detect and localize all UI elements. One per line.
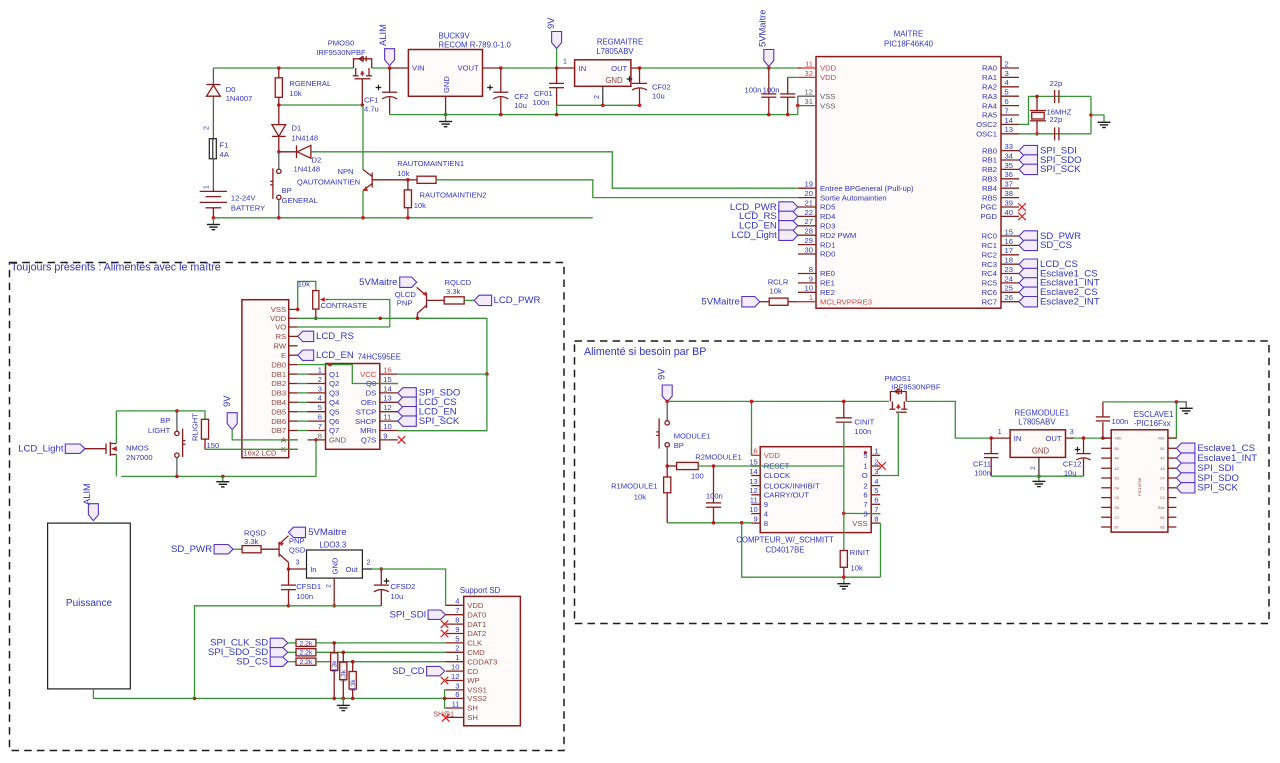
wire module gnd rail xyxy=(991,475,1083,477)
ESCLAVE1 pin l4 xyxy=(1101,467,1111,469)
capacitor CF12 10u xyxy=(1076,438,1090,476)
SupportSD pin CLK xyxy=(446,642,464,644)
svg-text:LCD_EN: LCD_EN xyxy=(316,350,354,361)
ground at BUCK xyxy=(445,115,447,122)
svg-text:A2: A2 xyxy=(1115,467,1119,471)
svg-text:Out: Out xyxy=(346,565,359,574)
74HC595 pin Q4 xyxy=(308,401,326,403)
CD4017 pin CLOCK/INHIBIT xyxy=(751,485,760,487)
svg-text:RA5: RA5 xyxy=(982,111,997,120)
resistor RAUTOMAINTIEN2 10k xyxy=(404,190,411,208)
svg-text:L7805ABV: L7805ABV xyxy=(596,47,634,56)
ESCLAVE1 pin r7 xyxy=(1168,497,1177,499)
power ALIM top xyxy=(385,49,395,66)
svg-text:6: 6 xyxy=(874,496,878,505)
svg-text:RAUTOMAINTIEN1: RAUTOMAINTIEN1 xyxy=(397,159,464,168)
label SD_CS xyxy=(270,657,288,666)
wire RESET over chip xyxy=(751,465,844,467)
74HC595 pin Q5 xyxy=(308,411,326,413)
svg-text:RB2: RB2 xyxy=(982,165,997,174)
svg-text:R2MODULE1: R2MODULE1 xyxy=(695,453,741,462)
74HC595 pin VCC xyxy=(380,373,398,375)
capacitor CFSD1 100n xyxy=(281,569,296,606)
PIC pin 19 Entree xyxy=(798,187,816,189)
power 9V module xyxy=(662,385,672,402)
svg-text:7: 7 xyxy=(863,500,867,509)
svg-text:CF12: CF12 xyxy=(1063,460,1082,469)
svg-text:RA0: RA0 xyxy=(982,64,997,73)
svg-text:NPN: NPN xyxy=(337,167,353,176)
PIC pin RC3 xyxy=(1001,263,1019,265)
svg-text:RQLCD: RQLCD xyxy=(445,278,472,287)
resistor pullup 3.3k #2 xyxy=(342,651,346,655)
svg-text:B7: B7 xyxy=(1115,526,1119,530)
svg-text:100n: 100n xyxy=(706,491,723,500)
svg-text:23: 23 xyxy=(1005,265,1013,274)
svg-text:RA4: RA4 xyxy=(982,101,998,110)
svg-text:9: 9 xyxy=(753,515,757,524)
svg-text:6: 6 xyxy=(455,690,459,699)
svg-text:VOUT: VOUT xyxy=(458,64,479,73)
svg-text:2: 2 xyxy=(1005,59,1009,68)
svg-text:BP: BP xyxy=(282,186,292,195)
svg-text:2: 2 xyxy=(1030,466,1037,470)
svg-text:12: 12 xyxy=(451,672,459,681)
svg-text:11: 11 xyxy=(805,59,813,68)
transistor PMOS1 IRF9530NPBF xyxy=(889,389,907,412)
svg-text:Toujours présents : Alimentés: Toujours présents : Alimentés avec le ma… xyxy=(11,262,221,274)
svg-text:STCP: STCP xyxy=(356,407,377,416)
PIC pin RE0 xyxy=(798,273,816,275)
wire VDD riser xyxy=(751,401,753,455)
svg-text:10k: 10k xyxy=(397,169,409,178)
svg-text:VSS: VSS xyxy=(1158,437,1166,441)
wire OSC1 rail xyxy=(1019,133,1091,135)
svg-text:In: In xyxy=(310,565,316,574)
PIC pin RB1 xyxy=(1001,159,1019,161)
svg-text:GND: GND xyxy=(330,557,339,574)
svg-text:1: 1 xyxy=(809,293,813,302)
svg-text:9V: 9V xyxy=(545,17,556,29)
svg-text:RD3: RD3 xyxy=(820,222,835,231)
svg-text:30: 30 xyxy=(805,245,813,254)
power ALIM puissance xyxy=(88,504,98,521)
svg-text:9: 9 xyxy=(809,274,813,283)
capacitor C100n A at PIC xyxy=(761,68,776,115)
wire RGENERAL to PMOS gate xyxy=(279,104,363,106)
PIC pin PGD xyxy=(1001,215,1019,217)
svg-text:1: 1 xyxy=(318,366,322,375)
svg-text:RD0: RD0 xyxy=(820,250,835,259)
svg-text:5VMaitre: 5VMaitre xyxy=(359,277,397,288)
svg-text:CD: CD xyxy=(467,667,479,676)
svg-text:SD_CS: SD_CS xyxy=(236,657,268,668)
ESCLAVE1 pin l9 xyxy=(1101,516,1111,518)
svg-text:2: 2 xyxy=(863,481,867,490)
svg-text:40: 40 xyxy=(1005,208,1013,217)
capacitor CF1 4.7u xyxy=(382,68,397,115)
svg-text:C4: C4 xyxy=(1160,477,1164,481)
PIC pin RB5 xyxy=(1001,197,1019,199)
svg-text:4A: 4A xyxy=(220,150,230,159)
svg-text:4: 4 xyxy=(1005,78,1009,87)
svg-text:DB5: DB5 xyxy=(271,407,286,416)
svg-text:3: 3 xyxy=(318,384,322,393)
LCD pin K xyxy=(289,448,298,450)
resistor 2.2k #3 xyxy=(288,661,296,663)
svg-text:OSC2: OSC2 xyxy=(976,120,997,129)
wire LDO out xyxy=(362,568,372,570)
svg-text:4: 4 xyxy=(318,394,322,403)
svg-text:26: 26 xyxy=(1005,293,1013,302)
PIC pin VSS 31 xyxy=(798,105,816,107)
svg-text:2: 2 xyxy=(325,584,332,588)
svg-text:DAT0: DAT0 xyxy=(467,610,486,619)
svg-text:2N7000: 2N7000 xyxy=(126,453,153,462)
wire module bottom-left rail xyxy=(667,522,751,524)
svg-text:3: 3 xyxy=(1005,69,1009,78)
svg-text:C1: C1 xyxy=(1160,486,1164,490)
CD4017 pin RESET xyxy=(751,465,760,467)
svg-text:10u: 10u xyxy=(514,101,527,110)
svg-text:OUT: OUT xyxy=(611,64,627,73)
svg-text:RB4: RB4 xyxy=(982,184,998,193)
switch BP GENERAL xyxy=(270,152,281,218)
svg-text:BP: BP xyxy=(160,416,170,425)
svg-text:CF2: CF2 xyxy=(514,92,528,101)
label LCD_Light at RD2 xyxy=(779,230,798,240)
svg-text:DB3: DB3 xyxy=(271,389,286,398)
svg-text:Q2: Q2 xyxy=(329,379,339,388)
wire 74HC GND down xyxy=(314,438,318,442)
wire R2 to RESET xyxy=(698,465,844,467)
wire VSS bottom rail xyxy=(390,114,798,116)
svg-text:5: 5 xyxy=(874,486,878,495)
wire RAUTOMAINTIEN1 to Sortie pin20 xyxy=(436,180,798,198)
svg-text:RA2: RA2 xyxy=(982,83,997,92)
svg-text:Esclave2_INT: Esclave2_INT xyxy=(1040,297,1100,308)
svg-text:28: 28 xyxy=(805,227,813,236)
LCD pin DB2 xyxy=(289,383,298,385)
CD4017 pin r3 xyxy=(871,475,880,477)
ESCLAVE1 pin l6 xyxy=(1101,487,1111,489)
svg-text:1: 1 xyxy=(998,429,1002,436)
svg-text:38: 38 xyxy=(1005,189,1013,198)
svg-text:31: 31 xyxy=(805,97,813,106)
svg-text:REGMAITRE: REGMAITRE xyxy=(597,38,643,47)
label 5VMaitre at QSD xyxy=(289,527,306,537)
wire VSS pins to rail xyxy=(797,96,799,105)
label 5VMaitre at QLCD xyxy=(400,277,417,287)
resistor RCLR 10k xyxy=(769,298,788,305)
svg-text:5: 5 xyxy=(1005,88,1009,97)
svg-text:SPI_SDI: SPI_SDI xyxy=(390,610,427,621)
PIC pin RD4 xyxy=(798,215,816,217)
PIC pin RB3 xyxy=(1001,178,1019,180)
LCD pin DB7 xyxy=(289,430,298,432)
wire VO row xyxy=(298,326,390,328)
svg-text:7: 7 xyxy=(455,606,459,615)
svg-text:RQSD: RQSD xyxy=(244,528,266,537)
svg-text:CLK: CLK xyxy=(467,639,483,648)
svg-text:5: 5 xyxy=(455,634,459,643)
ground at SD pullups xyxy=(342,698,344,705)
fuse F1 4A xyxy=(209,139,216,189)
svg-text:-PIC16Fxx: -PIC16Fxx xyxy=(1134,419,1171,428)
svg-text:1: 1 xyxy=(874,447,878,456)
PIC pin OSC2 xyxy=(1001,123,1019,125)
svg-text:O: O xyxy=(862,471,868,480)
wire VOUT rail to REGMAITRE xyxy=(483,67,501,69)
regulator LDO3.3 xyxy=(287,567,291,571)
ESCLAVE1 pin r4 xyxy=(1168,467,1177,469)
switch MODULE1 BP xyxy=(656,401,669,466)
label LCD_Light in xyxy=(65,444,85,453)
svg-text:ALIM: ALIM xyxy=(81,483,92,505)
capacitor 100n module xyxy=(706,466,721,523)
svg-text:SH: SH xyxy=(467,713,478,722)
svg-text:D4: D4 xyxy=(1115,486,1119,490)
svg-text:VDD: VDD xyxy=(820,73,837,82)
wire DB0 to Q0 xyxy=(298,365,398,384)
svg-text:10: 10 xyxy=(749,505,757,514)
LCD pin VSS xyxy=(289,308,298,310)
wire VCC to vertical xyxy=(398,373,487,375)
svg-text:MAITRE: MAITRE xyxy=(894,30,923,39)
svg-text:12-24V: 12-24V xyxy=(231,194,256,203)
PIC pin RC1 xyxy=(1001,244,1019,246)
svg-text:VDD: VDD xyxy=(764,451,781,460)
svg-text:15: 15 xyxy=(383,375,391,384)
ESCLAVE1 pin r2 xyxy=(1168,447,1177,449)
diode D2 1N4148 xyxy=(277,150,281,154)
svg-text:14: 14 xyxy=(383,384,391,393)
74HC595 pin GND xyxy=(308,439,326,441)
label LCD_EN at STCP xyxy=(398,407,417,417)
PIC pin RC6 xyxy=(1001,291,1019,293)
svg-text:RD1: RD1 xyxy=(820,240,835,249)
PIC pin VSS 12 xyxy=(798,95,816,97)
svg-text:1N4007: 1N4007 xyxy=(226,94,253,103)
svg-text:11: 11 xyxy=(452,699,460,708)
svg-text:Q6: Q6 xyxy=(329,417,339,426)
wire backlight top rail xyxy=(116,411,205,419)
wire PMOS0 drain to VIN xyxy=(372,67,391,69)
svg-text:27: 27 xyxy=(805,217,813,226)
svg-text:10u: 10u xyxy=(1064,469,1077,478)
svg-text:9V: 9V xyxy=(221,395,232,407)
svg-text:8: 8 xyxy=(874,515,878,524)
svg-text:QSD: QSD xyxy=(289,546,306,555)
svg-text:13: 13 xyxy=(749,477,757,486)
svg-text:19: 19 xyxy=(805,180,813,189)
svg-text:9: 9 xyxy=(764,500,768,509)
svg-text:11: 11 xyxy=(383,413,391,422)
svg-text:PNP: PNP xyxy=(397,298,413,307)
svg-text:DB4: DB4 xyxy=(271,398,287,407)
resistor 2.2k #1 xyxy=(288,642,296,644)
svg-text:2: 2 xyxy=(367,560,371,567)
no-connect DAT1 xyxy=(441,620,449,628)
svg-text:VSS: VSS xyxy=(820,92,835,101)
dashed frame left box xyxy=(10,263,565,751)
svg-text:20: 20 xyxy=(805,189,813,198)
svg-text:14: 14 xyxy=(749,467,757,476)
svg-text:8: 8 xyxy=(318,431,322,440)
svg-text:OUT: OUT xyxy=(1045,434,1061,443)
svg-text:10k: 10k xyxy=(851,563,863,572)
SupportSD pin DAT2 xyxy=(446,633,464,635)
no-connect WP xyxy=(441,677,449,685)
CD4017 pin r4 xyxy=(871,485,880,487)
ESCLAVE1 pin l3 xyxy=(1101,457,1111,459)
wire CLK row xyxy=(316,642,446,644)
SupportSD pin VDD xyxy=(446,604,464,606)
svg-text:C7: C7 xyxy=(1115,516,1119,520)
label SPI_SDO esclave xyxy=(1176,473,1195,483)
svg-text:12: 12 xyxy=(805,88,813,97)
label SD_CS at RC1 xyxy=(1019,240,1038,250)
svg-text:VO: VO xyxy=(275,323,286,332)
LCD pin E xyxy=(289,354,298,356)
svg-text:100n: 100n xyxy=(854,427,871,436)
CD4017 pin r8 xyxy=(871,522,880,524)
svg-text:22: 22 xyxy=(805,208,813,217)
svg-text:CLOCK/INHIBIT: CLOCK/INHIBIT xyxy=(764,481,820,490)
svg-text:4: 4 xyxy=(874,477,878,486)
svg-text:F1: F1 xyxy=(220,141,229,150)
wire CDDAT3 row xyxy=(316,661,446,663)
svg-text:100n: 100n xyxy=(296,592,313,601)
label LCD_RS at RD4 xyxy=(779,211,798,221)
svg-text:3.3k: 3.3k xyxy=(244,537,259,546)
wire crystal top rail xyxy=(1037,95,1091,97)
wire crystal right branch xyxy=(1090,96,1092,133)
svg-text:RA3: RA3 xyxy=(982,92,997,101)
wire PMOS1 gate to output O xyxy=(880,412,898,475)
svg-text:MCLRVPPRE3: MCLRVPPRE3 xyxy=(820,297,872,306)
wire PMOS1 to REGMODULE IN xyxy=(906,401,991,438)
label LCD_EN xyxy=(298,350,314,360)
PIC pin MCLR xyxy=(798,301,816,303)
LCD pin DB4 xyxy=(289,401,298,403)
svg-text:RS: RS xyxy=(276,332,287,341)
svg-text:16: 16 xyxy=(749,447,757,456)
SupportSD pin CD xyxy=(446,670,464,672)
wire wiper to VO xyxy=(328,300,390,328)
svg-text:VDD: VDD xyxy=(1115,437,1123,441)
transistor NPN QAUTOMAINTIEN xyxy=(363,105,408,218)
svg-text:SD_CD: SD_CD xyxy=(392,666,425,677)
svg-text:LDO3.3: LDO3.3 xyxy=(319,541,346,550)
REGMODULE1 GND pin xyxy=(1038,457,1040,476)
svg-text:RC5: RC5 xyxy=(982,279,997,288)
svg-text:100n: 100n xyxy=(533,98,550,107)
block Puissance xyxy=(48,523,131,689)
CD4017 pin 4 xyxy=(751,513,760,515)
svg-text:Alimenté si besoin par BP: Alimenté si besoin par BP xyxy=(584,346,706,358)
PIC pin RA1 xyxy=(1001,76,1019,78)
wire puissance to ground rail xyxy=(93,689,444,699)
svg-text:CONTRASTE: CONTRASTE xyxy=(321,301,368,310)
svg-text:5VMaitre: 5VMaitre xyxy=(701,297,739,308)
svg-text:13: 13 xyxy=(383,394,391,403)
CD4017 pin r1 xyxy=(871,454,880,456)
svg-text:34: 34 xyxy=(1005,151,1013,160)
label Esclave2_INT at RC7 xyxy=(1019,297,1038,307)
ESCLAVE1 pin r8 xyxy=(1168,506,1177,508)
battery BP column wire xyxy=(212,68,214,85)
74HC595 pin Q1 xyxy=(308,373,326,375)
svg-text:4: 4 xyxy=(764,509,769,518)
svg-text:10: 10 xyxy=(451,663,459,672)
svg-text:3.3k: 3.3k xyxy=(350,679,357,692)
svg-text:32: 32 xyxy=(805,69,813,78)
dashed frame right box xyxy=(575,341,1270,624)
PIC pin RD1 xyxy=(798,244,816,246)
wire OUT to ESCLAVE1 xyxy=(1066,437,1075,439)
label SPI_SCK at RB2 xyxy=(1019,164,1038,174)
svg-text:LIGHT: LIGHT xyxy=(148,426,171,435)
74HC595 pin Q7S xyxy=(380,439,398,441)
svg-text:7: 7 xyxy=(318,422,322,431)
LCD pin RW xyxy=(289,345,298,347)
ESCLAVE1 pin l8 xyxy=(1101,506,1111,508)
svg-text:BP: BP xyxy=(674,441,684,450)
ESCLAVE1 pin r9 xyxy=(1168,516,1177,518)
wire SD gnd rail xyxy=(289,605,382,607)
LDO GND pin xyxy=(333,578,335,606)
svg-text:WP: WP xyxy=(467,676,479,685)
diode D0 1N4007 xyxy=(206,85,220,139)
SupportSD pin VSS1 xyxy=(446,689,464,691)
svg-text:SPI_SCK: SPI_SCK xyxy=(419,416,460,427)
svg-text:7: 7 xyxy=(1005,106,1009,115)
svg-text:Sortie Automaintien: Sortie Automaintien xyxy=(820,193,887,202)
wire CF01 GND rail xyxy=(557,104,640,106)
svg-text:RC6: RC6 xyxy=(982,288,997,297)
svg-text:6: 6 xyxy=(1005,97,1009,106)
svg-text:12: 12 xyxy=(383,403,391,412)
svg-text:4: 4 xyxy=(455,597,459,606)
wire VDD row xyxy=(298,318,487,374)
svg-text:15: 15 xyxy=(749,457,757,466)
ground at REGMODULE1 xyxy=(1038,476,1040,481)
svg-text:CF01: CF01 xyxy=(534,89,553,98)
wire VSS to bottom rail xyxy=(880,523,882,577)
svg-text:6: 6 xyxy=(863,491,867,500)
svg-text:8: 8 xyxy=(809,265,813,274)
LCD pin DB3 xyxy=(289,392,298,394)
svg-text:9: 9 xyxy=(455,625,459,634)
capacitor CF2 10u xyxy=(499,66,503,70)
label SPI_SCK at SHCP xyxy=(398,416,417,426)
svg-text:RE1: RE1 xyxy=(820,279,835,288)
svg-text:PGD: PGD xyxy=(980,212,997,221)
ESCLAVE1 pin r6 xyxy=(1168,487,1177,489)
svg-text:18: 18 xyxy=(1005,256,1013,265)
PIC pin RB0 xyxy=(1001,150,1019,152)
capacitor C100n B at PIC xyxy=(780,77,798,114)
ESCLAVE1 pin l1 xyxy=(1101,437,1111,439)
resistor RLIGHT 150 xyxy=(201,419,208,439)
battery BT 12-24V xyxy=(200,189,227,218)
PIC pin RB4 xyxy=(1001,187,1019,189)
label SPI_SCK esclave xyxy=(1176,483,1195,493)
svg-text:B1: B1 xyxy=(1160,447,1164,451)
svg-text:100n: 100n xyxy=(744,86,761,95)
svg-text:36: 36 xyxy=(1005,170,1013,179)
